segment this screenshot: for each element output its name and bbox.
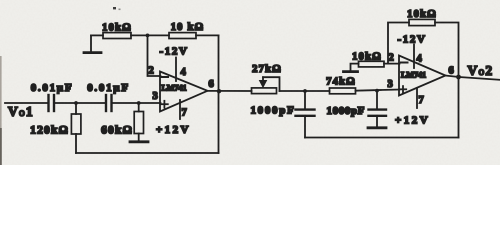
op-amp U1 LM741 — [160, 72, 208, 112]
power -12V U2 pin 4 — [398, 34, 427, 69]
wire (branch down to U1 pin 2) — [148, 35, 161, 76]
ground (under R 60k) — [130, 140, 148, 143]
scan speck top — [113, 7, 116, 9]
resistor 10kΩ R2 (U1 feedback) — [169, 22, 204, 39]
power -12V U1 pin 4 — [160, 45, 189, 81]
resistor 120kΩ (node A to bottom feedback rail) — [30, 114, 81, 137]
scan edge artifact bottom-left — [0, 128, 2, 165]
node (U1 output junction with feedback verticals) — [217, 89, 221, 93]
potentiometer 27kΩ (rheostat) — [252, 64, 282, 94]
node (top rail to U1 pin2 branch) — [146, 34, 150, 38]
node C (junction pot / C3 / R 74k) — [303, 89, 307, 93]
power +12V U2 pin 7 — [395, 88, 430, 127]
node B (junction C2 / R 60k / pin3) — [137, 101, 141, 105]
ground (under C4) — [368, 126, 386, 129]
resistor 60kΩ (node B to ground) — [101, 112, 143, 137]
wire (R 120k to bottom rail) — [75, 134, 77, 153]
wire (feedback rail left: R3 to U2 pin2 vertical) — [388, 23, 409, 64]
wire (feedback rail right: R3 to output vertical) — [435, 23, 459, 138]
node (U2 output junction with feedback vertical) — [456, 75, 461, 80]
node A (junction C1/C2/R 120k) — [74, 101, 78, 105]
ground (under R4) — [344, 70, 358, 73]
wire (R 74k to U2 pin 3) — [356, 90, 400, 91]
resistor 10kΩ R4 (U2 inverting input to ground) — [352, 52, 384, 67]
wire (C2 to U1 pin 3) — [112, 102, 161, 104]
ground (top-left, gain-set resistor of U1) — [84, 35, 101, 52]
resistor 10kΩ R1 (U1 inverting input to ground) — [102, 22, 132, 38]
wire (R2 to feedback vertical) — [196, 34, 219, 36]
wire (C1 to node A) — [54, 102, 106, 104]
wire (R 60k to ground) — [138, 134, 140, 142]
capacitor C3 1000pF (node C to stage-2 feedback rail) — [250, 91, 314, 138]
wire (stage-2 bottom feedback rail) — [305, 137, 459, 139]
wire (R1 to node / R2) — [131, 34, 169, 36]
capacitor C2 0.01µF — [87, 82, 130, 111]
resistor 74kΩ — [326, 77, 356, 94]
op-amp U2 LM741 — [399, 56, 446, 96]
wire (node B down to R 60k) — [138, 103, 140, 112]
wire (U2 output to Vo2) — [445, 76, 500, 80]
capacitor C4 1000pF (node D to ground) — [327, 91, 387, 127]
node D (junction R74k / C4 / pin3) — [375, 89, 379, 93]
wire (ground to R1) — [91, 34, 103, 36]
wire (node A down to R 120k) — [75, 103, 77, 114]
capacitor C1 0.01µF — [31, 82, 74, 111]
scan grain overlay — [0, 0, 500, 165]
power +12V U1 pin 7 — [156, 100, 191, 136]
wire (input Vo1 to C1) — [5, 102, 49, 104]
wire (pot to node C) — [280, 90, 330, 92]
wire (R4 right lead to pin2 vertical) — [384, 63, 400, 65]
scan edge artifact left — [0, 56, 2, 165]
wire (feedback vertical down to U1 output node and bottom rail) — [218, 35, 220, 153]
wire (U1 output to potentiometer) — [208, 90, 252, 92]
wire (R4 left lead to ground) — [351, 64, 359, 71]
wire (bottom feedback rail of stage 1) — [76, 152, 219, 154]
resistor 10kΩ R3 (U2 feedback, top) — [407, 9, 437, 26]
